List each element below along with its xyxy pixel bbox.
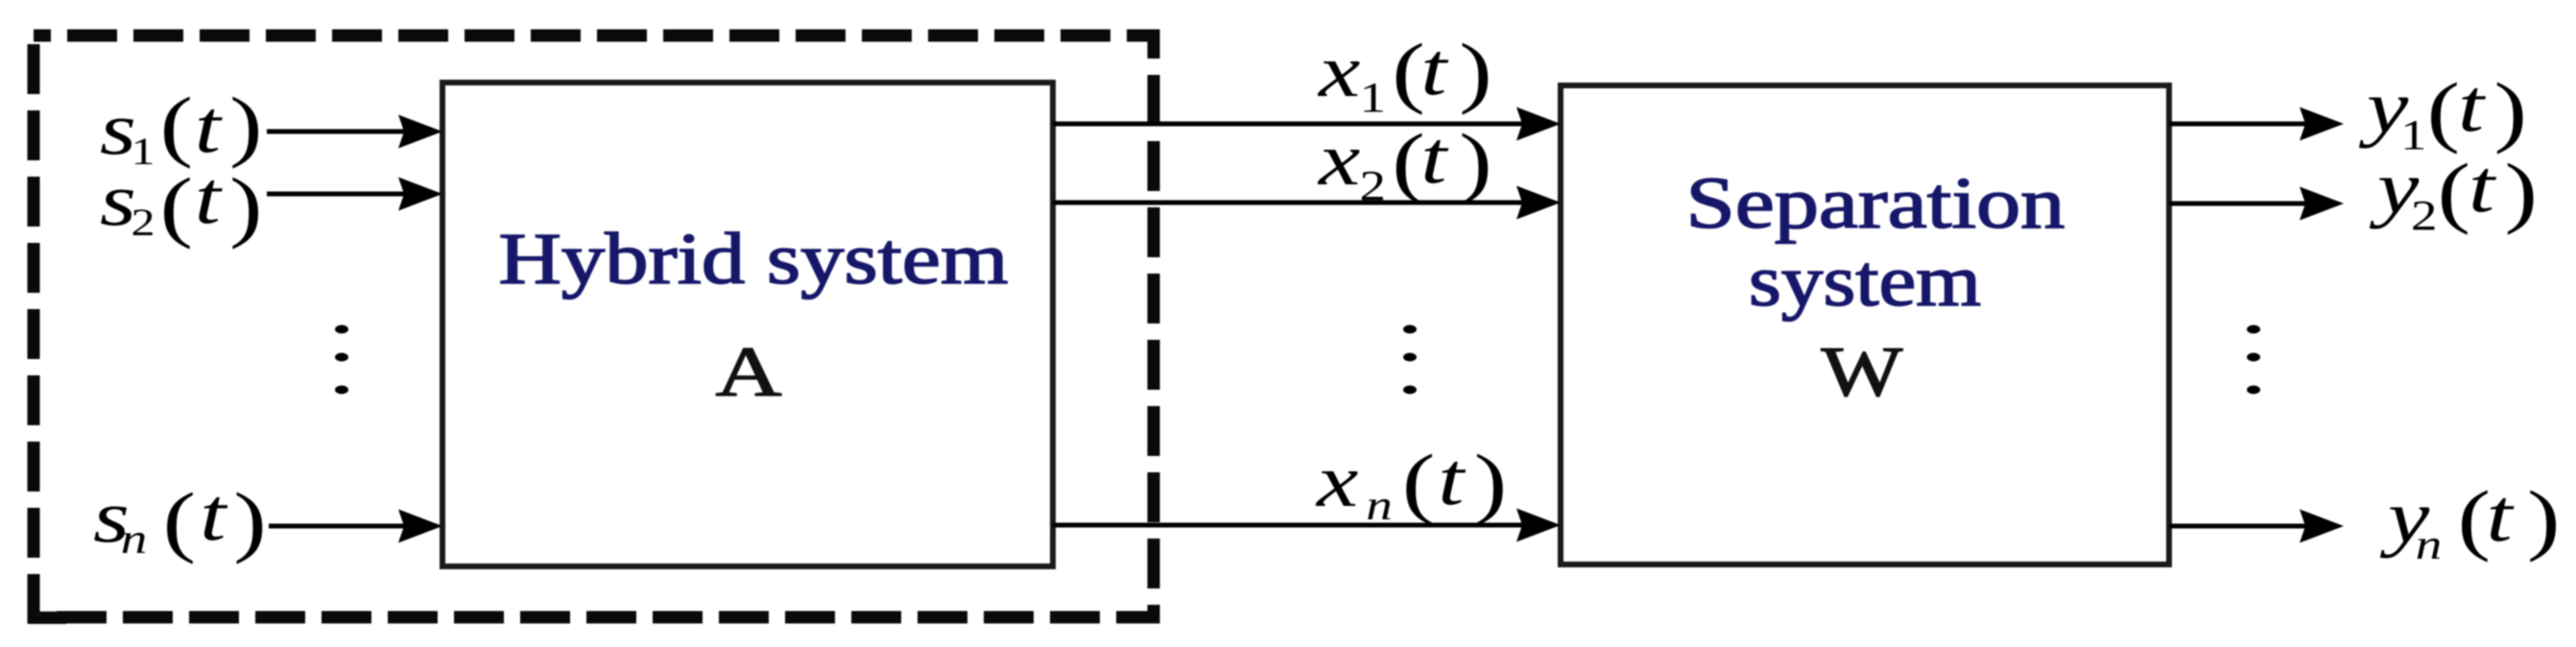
wire y2 out of separation — [2169, 187, 2344, 221]
wire x1 hybrid to separation — [1053, 108, 1561, 141]
svg-text:sn(t): sn(t) — [93, 473, 267, 564]
svg-text:x1(t): x1(t) — [1317, 28, 1492, 121]
dots between x2 and xn — [1403, 325, 1417, 395]
svg-text:W: W — [1822, 333, 1903, 412]
dots between y2 and yn — [2247, 325, 2260, 395]
block U1: Hybrid system A — [442, 83, 1053, 566]
dashed boundary corner patch — [28, 611, 66, 624]
svg-text:yn(t): yn(t) — [2379, 474, 2560, 568]
wire s2 into hybrid box — [267, 178, 442, 211]
dashed boundary box (mixing stage) — [34, 36, 1154, 617]
svg-text:Separation: Separation — [1686, 163, 2065, 244]
svg-text:A: A — [716, 333, 782, 412]
svg-text:s2(t): s2(t) — [100, 156, 263, 250]
svg-text:y2(t): y2(t) — [2369, 145, 2538, 239]
wire s1 into hybrid box — [267, 115, 442, 149]
block U2: Separation system W — [1561, 85, 2169, 564]
svg-text:xn(t): xn(t) — [1315, 438, 1508, 529]
wire yn out of separation — [2169, 510, 2344, 543]
wire x2 hybrid to separation — [1053, 186, 1561, 220]
wire xn hybrid to separation — [1053, 509, 1561, 542]
svg-text:system: system — [1749, 241, 1981, 322]
svg-text:x2(t): x2(t) — [1317, 116, 1492, 209]
svg-text:y1(t): y1(t) — [2358, 64, 2527, 158]
dots between s2 and sn — [335, 325, 348, 395]
wire y1 out of separation — [2169, 108, 2344, 141]
svg-text:Hybrid system: Hybrid system — [499, 219, 1009, 300]
wire sn into hybrid box — [269, 510, 442, 543]
